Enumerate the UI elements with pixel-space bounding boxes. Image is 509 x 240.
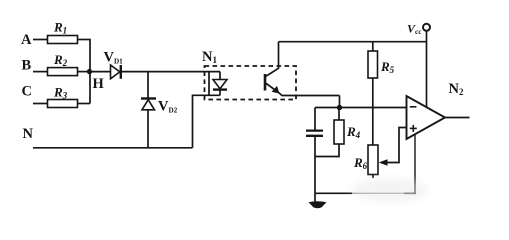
- svg-text:N: N: [23, 126, 34, 142]
- Vcc terminal: [423, 24, 430, 31]
- svg-text:N2: N2: [449, 81, 464, 97]
- diode VD2: [141, 99, 156, 110]
- wire VD1 to optocoupler LED: [122, 71, 220, 73]
- wire R5 top stub: [372, 42, 374, 51]
- svg-text:N1: N1: [202, 49, 217, 65]
- wire capacitor to ground rail: [314, 137, 316, 194]
- resistor R1: [48, 36, 78, 44]
- resistor R6 potentiometer: [368, 145, 378, 175]
- optocoupler LED: [213, 72, 227, 96]
- op-amp minus sign: [410, 106, 417, 108]
- resistor R5: [368, 51, 378, 78]
- wire N rail: [33, 147, 193, 149]
- svg-text:R2: R2: [53, 52, 68, 68]
- ground rail corner: [404, 192, 416, 194]
- wire Vcc down to op-amp supply: [426, 31, 428, 107]
- potentiometer wiper arrow: [379, 159, 388, 166]
- diode VD1: [111, 65, 121, 79]
- wire wiper to op-amp plus input: [387, 128, 407, 163]
- phototransistor collector: [266, 42, 279, 77]
- svg-text:VD1: VD1: [104, 50, 124, 66]
- ground symbol: [309, 201, 327, 208]
- op-amp N2: [407, 96, 446, 139]
- ground stem: [314, 193, 316, 202]
- stub R6 bottom: [372, 175, 374, 179]
- LED side bracket wire: [208, 72, 210, 96]
- wire emitter down to node: [339, 96, 341, 108]
- svg-text:R3: R3: [53, 85, 68, 101]
- wire N rail up to LED cathode: [193, 95, 221, 148]
- wire C input: [33, 103, 48, 105]
- wire R4 top stub: [338, 108, 340, 121]
- resistor R4: [334, 120, 344, 144]
- wire Vcc top rail: [279, 41, 427, 43]
- svg-text:A: A: [21, 32, 32, 48]
- node H junction dot: [87, 69, 92, 74]
- ground rail: [315, 192, 352, 194]
- wire R1 to bus: [78, 39, 91, 41]
- svg-text:R6: R6: [353, 155, 368, 171]
- svg-text:R1: R1: [53, 20, 67, 36]
- phototransistor emitter with arrow: [266, 83, 340, 96]
- wire R5 bottom to R6 top: [372, 78, 374, 145]
- resistor R3: [48, 100, 78, 108]
- svg-text:C: C: [22, 84, 32, 100]
- wire B input: [33, 71, 48, 73]
- capacitor C plates: [306, 131, 323, 136]
- optocoupler N1 dashed box: [205, 66, 297, 100]
- wire VD2 anode to N rail: [147, 110, 149, 148]
- phototransistor base bar: [264, 74, 267, 91]
- svg-text:VD2: VD2: [158, 99, 178, 115]
- svg-text:H: H: [93, 76, 105, 92]
- faint watermark smudge: [352, 178, 428, 202]
- wire node to op-amp minus input: [315, 107, 407, 109]
- svg-text:R5: R5: [380, 59, 395, 75]
- wire input bus vertical: [89, 40, 91, 104]
- svg-text:R4: R4: [346, 124, 361, 140]
- op-amp plus sign: [410, 125, 417, 132]
- wire R4 bottom jog: [315, 144, 339, 157]
- ground rail faint continuation: [352, 192, 404, 194]
- wire node down to capacitor: [314, 108, 316, 130]
- wire node H to diode VD1: [90, 71, 111, 73]
- wire branch down to VD2: [147, 72, 149, 99]
- junction dot node: [337, 105, 342, 110]
- wire op-amp output: [445, 117, 470, 119]
- wire A input: [33, 39, 48, 41]
- resistor R2: [48, 68, 78, 76]
- wire R2 to node H: [78, 71, 91, 73]
- svg-text:Vcc: Vcc: [407, 22, 422, 37]
- svg-text:B: B: [22, 58, 32, 74]
- wire R3 to bus: [78, 103, 91, 105]
- wire op-amp lower supply: [414, 134, 416, 194]
